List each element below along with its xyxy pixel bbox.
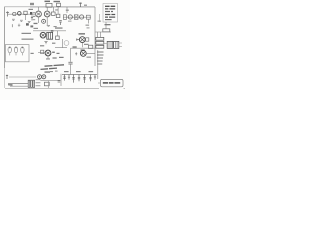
border frame left (4, 7, 6, 69)
text below x88 drop b (87, 27, 90, 28)
output transformer T3 secondary (114, 41, 119, 48)
resistor R4 (56, 36, 60, 40)
socket tube 3 (21, 47, 24, 53)
rail label 2 (76, 71, 81, 72)
output label box (101, 79, 124, 86)
notes text line3 (105, 11, 113, 13)
label left mid bus (34, 28, 39, 29)
rail cap 4 (78, 75, 80, 82)
resistor R8 (96, 45, 104, 48)
marks right of V9 b (57, 53, 60, 54)
tube V8 internal (82, 52, 85, 55)
ground G4 (47, 25, 50, 26)
small blob c (26, 23, 29, 25)
ground G3 (28, 21, 31, 22)
connector block bar3 (33, 80, 35, 87)
small mark b (18, 24, 20, 27)
scattered text h3 (59, 57, 64, 58)
label above twin (45, 71, 51, 72)
stub line 3 (36, 85, 41, 87)
border frame top (5, 6, 95, 8)
value label above R1 (54, 1, 61, 2)
wire mid bus (33, 30, 66, 32)
resistor R6 (96, 37, 104, 40)
wire input (8, 13, 35, 15)
text below V8 right (87, 57, 92, 58)
tube socket box (5, 45, 29, 62)
padder capacitor C2 (42, 19, 46, 23)
output label pointer (98, 82, 101, 84)
blob mark right (30, 12, 32, 15)
output transformer T3 primary (107, 41, 113, 48)
coil L1 (24, 11, 27, 14)
resistor R3 (56, 14, 60, 17)
row text below (68, 21, 72, 22)
wire choke bottom (97, 66, 99, 79)
box right of V7 (86, 38, 89, 41)
small blob d (30, 25, 33, 27)
wire h y47.6 (55, 47, 67, 49)
choke winding dash4 (97, 60, 103, 62)
choke winding dash2 (97, 54, 104, 56)
rail label 3 (89, 71, 94, 72)
twin circle a dot (39, 76, 40, 77)
wire v x97.5 (97, 32, 99, 38)
text left edge mid3 (33, 19, 35, 20)
wire IF row (63, 16, 91, 18)
choke winding dash3 (97, 57, 103, 59)
padder center dot (43, 21, 44, 22)
tube V2 internal (37, 13, 40, 16)
tube V7 internal (81, 38, 84, 41)
wire top bus (30, 6, 95, 8)
wire R3 top (57, 7, 59, 14)
wire v x70.5 (70, 48, 72, 62)
wire h y77 (9, 76, 36, 78)
wire v x48.5 (48, 81, 50, 88)
wire h y48.2 (71, 47, 98, 49)
label text row2 mid-left (22, 39, 34, 40)
text left of notes (98, 21, 102, 22)
wire V3 cathode (46, 17, 48, 26)
label above V7 (79, 33, 86, 34)
heater line 2 (10, 85, 28, 87)
pilot symbol (6, 75, 8, 79)
heater wedge (8, 84, 13, 86)
wire R stack to T3 (104, 43, 107, 45)
ground G2 (20, 20, 23, 21)
capacitor C4 (68, 62, 72, 64)
speck below labels b (55, 71, 58, 72)
IF tube V5 (80, 15, 84, 19)
tick label (66, 10, 69, 11)
variable capacitor VC1 (13, 12, 16, 15)
trimmer T1 (31, 16, 33, 21)
tube label row2 (41, 68, 58, 69)
cap mark x58 (58, 80, 61, 82)
T3 lead right bottom (119, 45, 122, 47)
label above transformer (55, 27, 63, 28)
notes box (103, 4, 118, 23)
node label text top left (30, 3, 34, 5)
rail cap 5 (83, 75, 85, 84)
label below wire (81, 49, 85, 50)
resistor R5 (88, 45, 92, 48)
wire drop x89 (87, 19, 89, 23)
notes text line6 (105, 19, 112, 21)
T2 core lines (49, 33, 51, 39)
heater line 1 (8, 83, 28, 85)
switch box S1 (44, 82, 49, 86)
label osc (34, 23, 38, 24)
wire R2 top (52, 7, 54, 12)
box left of V9 (41, 50, 44, 53)
tube V6 internal (41, 34, 44, 37)
audio tube V9 (45, 50, 51, 56)
wire top tick x67 (66, 7, 68, 13)
tick left of V8 (75, 52, 77, 55)
wire V8 right (86, 52, 95, 54)
wire V7 down (81, 43, 83, 48)
wire C4 down (70, 64, 72, 75)
wire v x106.5 (105, 22, 107, 29)
notes text line1 (105, 5, 115, 7)
antenna input symbol (6, 12, 9, 17)
connector block bar2 (31, 80, 33, 87)
T3 primary hatch (109, 42, 111, 49)
twin circle b dot (43, 76, 44, 77)
socket tube 1 dot (9, 47, 10, 48)
socket tube 2 (14, 47, 17, 53)
wire V2 anode (38, 7, 40, 11)
connector block bar1 (28, 80, 30, 87)
wire V9 left (38, 52, 45, 54)
label g (84, 44, 89, 45)
capacitor C1 box top (46, 3, 52, 7)
notes text line5 (105, 16, 115, 18)
T3 lead right top (119, 42, 122, 44)
text mid small (54, 26, 57, 27)
wire drop L1 (25, 15, 27, 20)
tube V2 osc (36, 11, 42, 17)
wire drop x62 (62, 39, 64, 48)
border frame left lower (4, 68, 6, 88)
tube V9 internal (46, 52, 49, 55)
rail cap 3 (72, 75, 74, 83)
faint loop mark center (64, 41, 69, 46)
rail cap 6 (89, 75, 91, 82)
rail label 1 (64, 71, 69, 72)
wire V9 down (47, 56, 49, 59)
wire v x100.5 (100, 32, 102, 38)
socket tube 3 pin (21, 53, 23, 56)
T3 secondary hatch (115, 42, 117, 49)
text left edge mid2 (33, 12, 35, 13)
resistor R1 box top (57, 3, 61, 6)
tube V3 internal (46, 13, 49, 16)
socket tube 2 dot (15, 47, 16, 48)
socket tube 1 pin (9, 53, 11, 56)
ground G1 (12, 19, 15, 20)
tube V1 grid cap (18, 12, 22, 16)
speck below labels a (50, 71, 53, 72)
tube V3 mixer (44, 11, 50, 17)
twin circle b (42, 75, 46, 79)
IF transformer box2 (74, 15, 78, 20)
power label below notes (105, 24, 111, 25)
value label above C1 (45, 1, 51, 2)
mark e (52, 43, 55, 44)
text left edge mid (33, 16, 36, 17)
label near R2 (55, 9, 58, 10)
choke winding dash1 (97, 51, 104, 53)
wire V2 cathode (38, 17, 40, 23)
label f (40, 45, 44, 46)
stub line 2 (36, 82, 41, 84)
grid cap V7 (76, 38, 79, 41)
resistor R7 (96, 41, 104, 44)
node B+ tick (79, 3, 82, 8)
wire left of notes (99, 14, 101, 22)
rail cap 7 (94, 75, 96, 80)
label left of V8 (73, 46, 77, 47)
resistor R2 (52, 12, 56, 15)
stub line 1 (36, 79, 41, 81)
IF transformer box1 (63, 15, 66, 20)
marks right of V9 (52, 52, 55, 53)
label right of tube box (31, 53, 34, 54)
twin circle a (38, 75, 42, 79)
tube V6 (40, 32, 46, 38)
label text row1 mid-left (22, 33, 32, 34)
notes text line2 (105, 8, 115, 10)
text below x88 drop (86, 25, 90, 26)
text below V9 (46, 58, 50, 59)
speck near x85 top (84, 5, 87, 6)
ground G5 (44, 41, 47, 43)
capacitor C3 (59, 21, 62, 25)
wire right bus (94, 7, 96, 66)
tube V7 (79, 37, 85, 43)
wire V3 anode (46, 7, 48, 11)
small mark a (11, 24, 13, 27)
choke winding vertical (97, 50, 99, 66)
tube V8 (80, 51, 86, 57)
choke winding dash5 (97, 63, 102, 65)
socket tube 3 dot (22, 47, 23, 48)
notes text line4 (105, 14, 115, 16)
rail cap 2 (68, 75, 70, 80)
socket tube 1 (8, 47, 11, 53)
IF tube V4 (68, 15, 72, 19)
IF box3 (86, 15, 90, 19)
tube label row1 (45, 65, 65, 66)
IF transformer T2 (47, 32, 53, 39)
wire v x61 (60, 74, 62, 86)
coil L2 (103, 29, 110, 32)
wire R4 top (56, 31, 58, 36)
border frame bottom (5, 88, 125, 90)
wire h y80.6 (40, 80, 60, 82)
T2 speck (51, 30, 54, 31)
box2 X (74, 15, 78, 20)
output label text (103, 82, 120, 84)
wire h y32 (95, 31, 111, 33)
label text small left (29, 9, 34, 10)
socket tube 2 pin (15, 53, 17, 56)
wire bottom rail (62, 74, 97, 76)
rail cap 1 (63, 75, 65, 81)
scattered text h2 (53, 57, 57, 58)
